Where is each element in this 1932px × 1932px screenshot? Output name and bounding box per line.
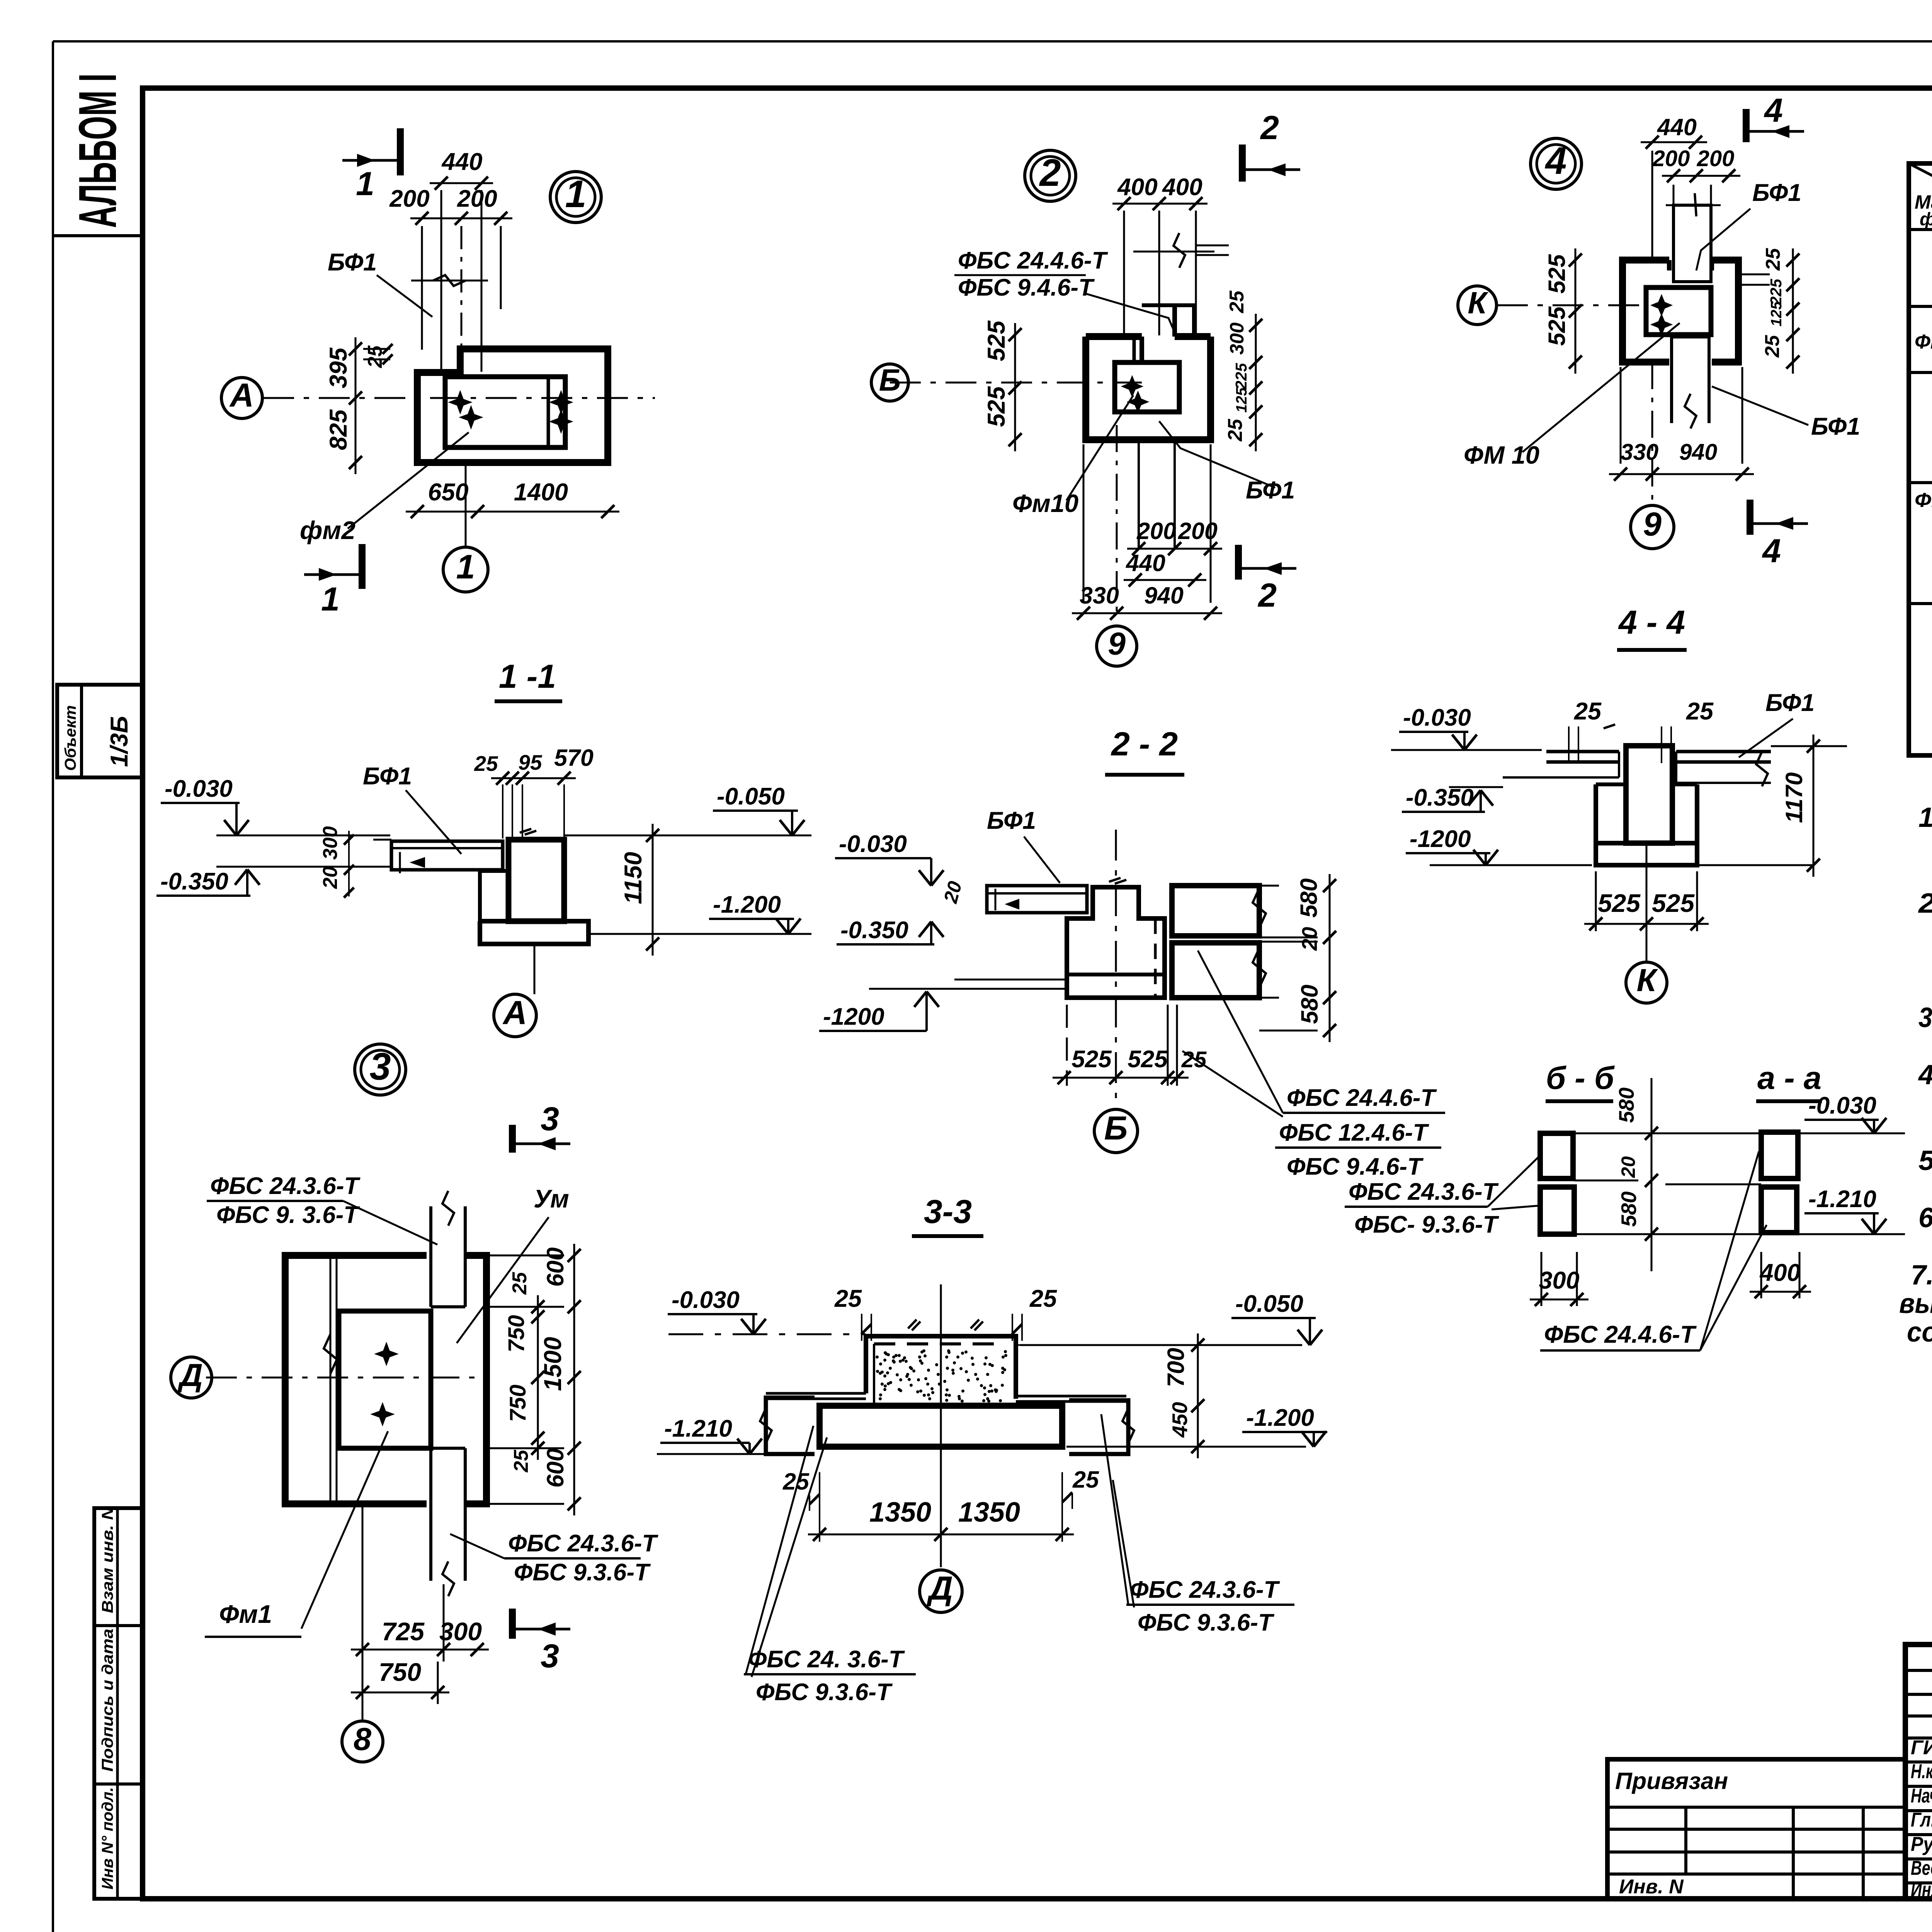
svg-text:3: 3	[541, 1100, 559, 1138]
svg-text:Объект: Объект	[61, 705, 79, 771]
svg-text:1400: 1400	[514, 479, 568, 506]
svg-text:ФБС 9.3.6-Т: ФБС 9.3.6-Т	[1138, 1609, 1275, 1636]
svg-text:300: 300	[1226, 322, 1248, 355]
svg-text:ФБС 24.4.6-Т: ФБС 24.4.6-Т	[1287, 1085, 1437, 1111]
svg-text:3: 3	[369, 1045, 391, 1088]
svg-text:20: 20	[1298, 927, 1321, 951]
svg-text:Гл.конс.: Гл.конс.	[1911, 1809, 1932, 1831]
svg-text:1 -1: 1 -1	[499, 658, 556, 695]
svg-text:450: 450	[1168, 1402, 1192, 1438]
svg-text:600: 600	[542, 1247, 568, 1287]
svg-text:400: 400	[1117, 174, 1157, 201]
svg-text:а - а: а - а	[1757, 1060, 1821, 1096]
svg-text:570: 570	[554, 745, 594, 771]
svg-text:-0.030: -0.030	[839, 831, 907, 857]
svg-text:фм2: фм2	[300, 516, 355, 544]
svg-text:440: 440	[1125, 550, 1165, 576]
svg-text:ФБС 9. 3.6-Т: ФБС 9. 3.6-Т	[216, 1202, 360, 1228]
svg-text:-0.030: -0.030	[672, 1287, 740, 1313]
svg-text:525: 525	[1652, 889, 1695, 917]
svg-text:2: 2	[1039, 151, 1061, 194]
svg-text:3. Под сборные фундаменты: 3. Под сборные фундаменты выполнить песч…	[1918, 1002, 1932, 1033]
svg-text:825: 825	[325, 409, 352, 450]
svg-text:300: 300	[1539, 1267, 1579, 1294]
svg-text:1: 1	[356, 165, 374, 202]
svg-text:Фм10: Фм10	[1012, 489, 1078, 517]
svg-text:К: К	[1636, 962, 1658, 998]
svg-text:200: 200	[1652, 146, 1690, 171]
svg-text:1/3Б: 1/3Б	[106, 716, 133, 767]
svg-text:-0.350: -0.350	[160, 868, 228, 895]
svg-text:Вед.инж.: Вед.инж.	[1911, 1857, 1932, 1879]
svg-text:25: 25	[510, 1449, 532, 1473]
svg-text:400: 400	[1162, 174, 1202, 201]
svg-text:-1.210: -1.210	[664, 1415, 732, 1442]
svg-text:95: 95	[518, 750, 543, 774]
svg-text:7. Гидроизоляцию стен от к: 7. Гидроизоляцию стен от капиллярной вла…	[1911, 1260, 1932, 1291]
svg-text:580: 580	[1614, 1087, 1638, 1123]
svg-text:2: 2	[1257, 577, 1277, 614]
svg-text:25: 25	[1072, 1466, 1099, 1493]
svg-text:-1200: -1200	[823, 1003, 884, 1030]
svg-text:Д: Д	[926, 1570, 953, 1607]
svg-text:-0.350: -0.350	[840, 917, 908, 944]
svg-text:25: 25	[834, 1285, 862, 1312]
svg-text:25: 25	[509, 1272, 531, 1295]
svg-text:состава 1:2, толщиной 30 мм: состава 1:2, толщиной 30 мм.	[1907, 1317, 1932, 1348]
svg-text:525: 525	[983, 320, 1010, 361]
svg-text:Ум: Ум	[534, 1184, 569, 1213]
svg-text:580: 580	[1617, 1191, 1641, 1227]
svg-text:200: 200	[1178, 518, 1218, 544]
svg-text:ФБС 12.4.6-Т: ФБС 12.4.6-Т	[1279, 1119, 1430, 1146]
svg-text:-0.050: -0.050	[1235, 1291, 1303, 1317]
svg-text:4 - 4: 4 - 4	[1618, 604, 1685, 641]
svg-text:-0.030: -0.030	[1808, 1092, 1876, 1119]
svg-text:25: 25	[1574, 698, 1602, 725]
svg-text:1: 1	[321, 581, 340, 618]
svg-text:2: 2	[1260, 109, 1279, 146]
svg-text:940: 940	[1144, 582, 1184, 609]
svg-text:-0.350: -0.350	[1406, 784, 1474, 811]
svg-text:525: 525	[1071, 1046, 1112, 1073]
svg-text:БФ1: БФ1	[363, 763, 412, 790]
svg-text:А: А	[229, 377, 254, 414]
svg-text:Б: Б	[1104, 1110, 1128, 1147]
svg-text:ФМ 10: ФМ 10	[1464, 441, 1539, 469]
svg-text:-0.030: -0.030	[1403, 704, 1471, 731]
svg-text:200: 200	[389, 185, 429, 212]
svg-text:Рук.сек: Рук.сек	[1911, 1833, 1932, 1855]
svg-text:125: 125	[1233, 387, 1250, 413]
svg-text:1350: 1350	[869, 1497, 931, 1528]
svg-text:Фм1: Фм1	[219, 1600, 272, 1628]
svg-text:200: 200	[1697, 146, 1735, 171]
svg-text:б - б: б - б	[1546, 1060, 1615, 1096]
svg-text:Инв N° подл.: Инв N° подл.	[99, 1787, 116, 1889]
svg-text:К: К	[1468, 286, 1488, 320]
svg-text:Б: Б	[879, 363, 901, 397]
svg-text:БФ1: БФ1	[1752, 179, 1801, 206]
svg-text:440: 440	[1656, 114, 1697, 140]
svg-text:300: 300	[439, 1617, 482, 1646]
svg-text:-1200: -1200	[1410, 826, 1471, 852]
svg-text:330: 330	[1080, 582, 1119, 609]
svg-text:А: А	[502, 994, 527, 1031]
svg-text:4: 4	[1764, 92, 1783, 129]
svg-text:750: 750	[504, 1315, 529, 1352]
svg-text:ФБС 24.3.6-Т: ФБС 24.3.6-Т	[508, 1530, 659, 1557]
svg-text:ФБС 9.3.6-Т: ФБС 9.3.6-Т	[756, 1679, 893, 1706]
svg-text:400: 400	[1759, 1259, 1800, 1286]
svg-text:1170: 1170	[1781, 772, 1807, 823]
svg-text:ФБС 9.4.6-Т: ФБС 9.4.6-Т	[1287, 1153, 1424, 1180]
svg-text:4: 4	[1762, 532, 1781, 570]
svg-text:4: 4	[1544, 139, 1566, 182]
svg-text:200: 200	[1136, 518, 1176, 544]
svg-text:600: 600	[542, 1448, 568, 1488]
svg-text:9: 9	[1643, 506, 1662, 543]
svg-text:ФБС 24.3.6-Т: ФБС 24.3.6-Т	[210, 1173, 361, 1199]
svg-text:фундамен-: фундамен-	[1920, 209, 1932, 229]
svg-text:300: 300	[319, 826, 342, 860]
svg-text:-0.030: -0.030	[165, 776, 233, 802]
svg-text:440: 440	[441, 148, 482, 175]
svg-text:БФ1: БФ1	[987, 807, 1036, 834]
svg-text:1: 1	[565, 172, 586, 215]
svg-text:5. Фундаментные балки и бе: 5. Фундаментные балки и бетонные блоки у…	[1918, 1145, 1932, 1176]
svg-text:1150: 1150	[620, 852, 647, 904]
svg-text:-1.200: -1.200	[713, 891, 781, 918]
svg-text:125: 125	[1768, 301, 1785, 327]
svg-text:25: 25	[1762, 248, 1784, 271]
svg-text:20: 20	[319, 866, 342, 889]
svg-text:200: 200	[457, 185, 497, 212]
svg-text:580: 580	[1296, 878, 1322, 918]
svg-text:ФБС- 9.3.6-Т: ФБС- 9.3.6-Т	[1354, 1211, 1500, 1238]
svg-text:ФБС 24. 3.6-Т: ФБС 24. 3.6-Т	[748, 1646, 905, 1673]
svg-text:ФБС 24.3.6-Т: ФБС 24.3.6-Т	[1130, 1577, 1281, 1603]
svg-text:1. За относительную отм. 0.: 1. За относительную отм. 0.000 принят ур…	[1918, 802, 1932, 833]
svg-text:3-3: 3-3	[924, 1193, 972, 1230]
svg-text:ФБС 24.4.6-Т: ФБС 24.4.6-Т	[1544, 1321, 1697, 1348]
svg-text:Д: Д	[177, 1357, 203, 1393]
svg-text:Нач отд.: Нач отд.	[1911, 1785, 1932, 1807]
svg-text:9: 9	[1108, 626, 1126, 662]
svg-text:2 - 2: 2 - 2	[1111, 726, 1178, 763]
svg-text:Фм 9÷Фм 11: Фм 9÷Фм 11	[1915, 331, 1932, 353]
svg-text:Привязан: Привязан	[1615, 1768, 1728, 1794]
svg-text:1500: 1500	[539, 1337, 566, 1391]
svg-text:-1.200: -1.200	[1246, 1405, 1314, 1431]
svg-text:2. Фундамент запроектирован: 2. Фундамент запроектирован для грунтов	[1918, 888, 1932, 919]
svg-text:Взам инв. N: Взам инв. N	[99, 1506, 116, 1613]
svg-text:Фм 4, Фм 6: Фм 4, Фм 6	[1915, 489, 1932, 512]
svg-text:БФ1: БФ1	[1811, 413, 1860, 440]
svg-text:ФБС 9.3.6-Т: ФБС 9.3.6-Т	[514, 1559, 651, 1586]
svg-text:АЛЬБОМ I: АЛЬБОМ I	[68, 73, 128, 228]
svg-text:750: 750	[379, 1658, 421, 1686]
svg-text:525: 525	[1544, 254, 1570, 294]
svg-text:25: 25	[1686, 698, 1714, 725]
svg-text:25: 25	[1029, 1285, 1057, 1312]
svg-text:25: 25	[474, 752, 498, 776]
svg-text:20: 20	[1617, 1156, 1639, 1178]
svg-text:700: 700	[1163, 1348, 1189, 1387]
svg-text:3: 3	[541, 1638, 559, 1675]
svg-text:Подпись и дата: Подпись и дата	[99, 1629, 116, 1772]
svg-text:395: 395	[325, 347, 352, 388]
svg-text:6. Фундаментные балки привя: 6. Фундаментные балки привязаны от оси б…	[1918, 1202, 1932, 1233]
svg-text:940: 940	[1679, 439, 1718, 465]
svg-text:выполнить из цементно - пес: выполнить из цементно - песчаного раство…	[1899, 1288, 1932, 1319]
svg-text:ГИП: ГИП	[1911, 1736, 1932, 1759]
svg-text:25: 25	[1224, 418, 1247, 442]
svg-text:225: 225	[1232, 362, 1250, 390]
svg-text:525: 525	[1598, 889, 1641, 917]
svg-text:-1.210: -1.210	[1808, 1186, 1876, 1213]
svg-text:525: 525	[983, 386, 1010, 427]
svg-text:БФ1: БФ1	[328, 249, 377, 276]
svg-text:ФБС 24.4.6-Т: ФБС 24.4.6-Т	[958, 247, 1109, 274]
svg-text:БФ1: БФ1	[1246, 477, 1295, 504]
svg-text:ФБС 9.4.6-Т: ФБС 9.4.6-Т	[958, 274, 1095, 301]
svg-text:25: 25	[1761, 335, 1784, 358]
svg-text:БФ1: БФ1	[1765, 689, 1815, 716]
svg-text:ФБС 24.3.6-Т: ФБС 24.3.6-Т	[1349, 1179, 1499, 1205]
svg-text:725: 725	[382, 1617, 425, 1646]
svg-text:Н.контр.: Н.контр.	[1911, 1760, 1932, 1783]
svg-text:1: 1	[456, 548, 475, 586]
svg-text:8: 8	[354, 1721, 372, 1757]
svg-text:4. Зазоры между фундаментам: 4. Зазоры между фундаментами и фундамент…	[1918, 1060, 1932, 1090]
svg-text:1350: 1350	[958, 1497, 1020, 1528]
svg-text:750: 750	[505, 1384, 531, 1422]
svg-text:Инв. N: Инв. N	[1619, 1876, 1684, 1898]
svg-text:-0.050: -0.050	[717, 783, 785, 810]
svg-text:580: 580	[1296, 985, 1323, 1024]
svg-text:Инженер: Инженер	[1911, 1879, 1932, 1901]
svg-text:650: 650	[428, 479, 468, 506]
svg-text:25: 25	[1226, 290, 1248, 313]
svg-text:525: 525	[1544, 306, 1570, 346]
svg-text:525: 525	[1128, 1046, 1168, 1073]
